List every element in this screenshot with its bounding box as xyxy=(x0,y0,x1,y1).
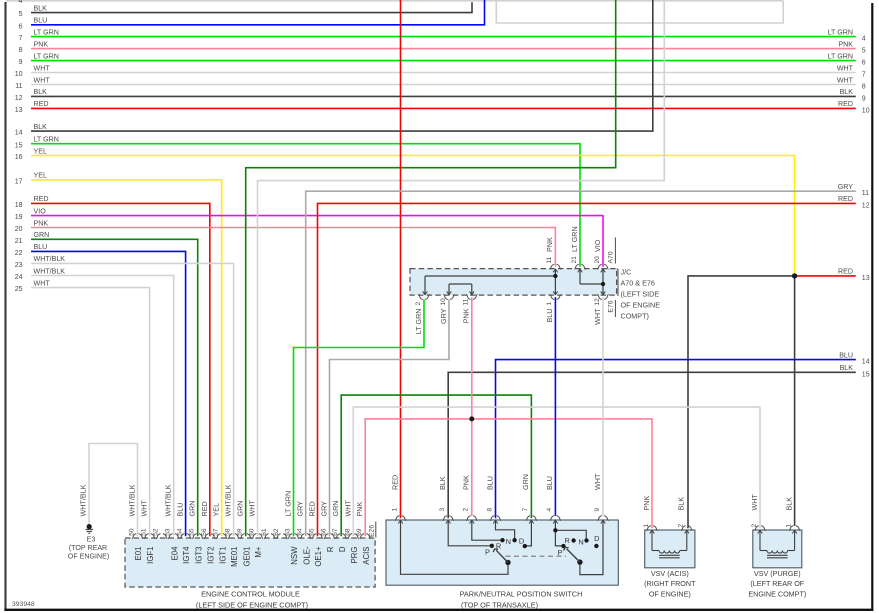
svg-text:RED: RED xyxy=(390,475,399,490)
svg-text:COMPT): COMPT) xyxy=(621,312,649,321)
svg-text:VSV (ACIS): VSV (ACIS) xyxy=(651,569,689,578)
svg-text:OF ENGINE: OF ENGINE xyxy=(621,301,661,310)
svg-text:WHT/BLK: WHT/BLK xyxy=(34,255,66,263)
svg-text:59: 59 xyxy=(237,528,244,536)
svg-text:22: 22 xyxy=(15,250,23,257)
svg-text:23: 23 xyxy=(15,262,23,269)
PNP internal: pin 4 to N and P contacts xyxy=(555,520,563,546)
svg-text:GRN: GRN xyxy=(521,474,530,490)
svg-text:IGT2: IGT2 xyxy=(206,547,215,564)
svg-text:60: 60 xyxy=(249,528,256,536)
svg-text:RED: RED xyxy=(838,100,853,108)
J/C internal wiring xyxy=(553,269,558,272)
wire GRN ECM pin 67 to PNP pin 7 xyxy=(341,395,531,536)
wire RED right 13 xyxy=(795,275,856,277)
svg-text:68: 68 xyxy=(344,528,351,536)
VSV PURGE solenoid coil xyxy=(759,531,761,551)
svg-text:P: P xyxy=(558,548,563,557)
wire 12 BLK across xyxy=(31,95,856,97)
svg-text:ENGINE COMPT): ENGINE COMPT) xyxy=(748,590,806,599)
ECM pin 57 IGT1 xyxy=(216,534,227,539)
svg-text:PNK: PNK xyxy=(642,496,651,511)
J/C A70 top pin 11 PNK xyxy=(550,264,561,269)
ECM pin 61 xyxy=(264,534,275,539)
svg-text:M+: M+ xyxy=(254,546,263,557)
svg-text:1: 1 xyxy=(785,524,792,528)
svg-text:LT GRN: LT GRN xyxy=(570,226,579,252)
svg-text:R: R xyxy=(326,546,335,552)
ECM pin 50 E01 xyxy=(132,534,143,539)
svg-text:WHT: WHT xyxy=(140,500,149,517)
svg-text:IGT4: IGT4 xyxy=(182,546,191,564)
svg-text:12: 12 xyxy=(862,202,870,209)
svg-text:1: 1 xyxy=(391,508,398,512)
svg-text:WHT: WHT xyxy=(343,500,352,517)
ECM pin 56 IGT2 xyxy=(204,534,215,539)
svg-text:PARK/NEUTRAL POSITION SWITCH: PARK/NEUTRAL POSITION SWITCH xyxy=(460,590,583,599)
svg-text:GRY: GRY xyxy=(439,308,448,324)
svg-text:5: 5 xyxy=(19,11,23,18)
svg-text:E04: E04 xyxy=(170,546,179,561)
svg-text:PNK: PNK xyxy=(34,40,49,48)
PNP contacts right xyxy=(571,538,575,542)
wire RED right 12 to ECM pin 65 xyxy=(318,203,856,536)
svg-text:PNK: PNK xyxy=(462,308,471,323)
wire 14 BLK from top xyxy=(31,0,653,131)
svg-text:15: 15 xyxy=(15,142,23,149)
svg-text:61: 61 xyxy=(261,528,268,536)
svg-text:18: 18 xyxy=(15,202,23,209)
wire PNK ECM pin 69 to VSV ACIS pin 1 xyxy=(365,419,652,536)
svg-text:GRN: GRN xyxy=(34,231,50,239)
wire 10 WHT across xyxy=(31,72,856,74)
wire 21 GRN to ECM pin 55 xyxy=(31,239,198,536)
svg-text:BLK: BLK xyxy=(34,4,48,12)
svg-text:21: 21 xyxy=(571,256,578,264)
svg-text:LT GRN: LT GRN xyxy=(414,309,423,335)
svg-text:N: N xyxy=(578,538,583,547)
svg-text:E76: E76 xyxy=(607,300,614,312)
VSV (ACIS) box xyxy=(645,530,695,568)
wire BLK right 15 to PNP pin 3 xyxy=(448,372,856,518)
VSV ACIS pin 2 BLK xyxy=(681,526,692,531)
PNP switch pin 9 WHT xyxy=(597,516,608,521)
ECM pin 63 NSW xyxy=(288,534,299,539)
svg-text:393948: 393948 xyxy=(12,601,35,608)
wire 25 WHT to ECM pin 51 xyxy=(31,288,150,537)
svg-text:9: 9 xyxy=(19,59,23,66)
svg-text:5: 5 xyxy=(862,48,866,55)
PNP switch pin 7 GRN xyxy=(526,516,537,521)
svg-text:WHT/BLK: WHT/BLK xyxy=(79,484,88,516)
svg-text:OE1+: OE1+ xyxy=(314,546,323,567)
svg-text:YEL: YEL xyxy=(212,503,221,517)
svg-text:20: 20 xyxy=(15,226,23,233)
svg-text:WHT/BLK: WHT/BLK xyxy=(34,267,66,275)
svg-text:NSW: NSW xyxy=(290,546,299,565)
svg-text:25: 25 xyxy=(15,286,23,293)
svg-text:VIO: VIO xyxy=(34,207,47,215)
svg-text:WHT: WHT xyxy=(34,64,51,72)
svg-text:GRY: GRY xyxy=(296,501,305,517)
svg-text:WHT: WHT xyxy=(248,500,257,517)
svg-text:6: 6 xyxy=(19,23,23,30)
svg-text:9: 9 xyxy=(594,508,601,512)
svg-text:11: 11 xyxy=(546,256,553,263)
J/C E76 bottom pin 1 BLU xyxy=(550,294,561,299)
svg-text:LT GRN: LT GRN xyxy=(34,28,59,36)
svg-text:54: 54 xyxy=(177,528,184,536)
ECM pin 64 OLE- xyxy=(300,534,311,539)
svg-text:E26: E26 xyxy=(368,525,375,537)
ECM pin 65 OE1+ xyxy=(312,534,323,539)
svg-text:(LEFT SIDE: (LEFT SIDE xyxy=(621,290,660,299)
svg-text:BLU: BLU xyxy=(485,476,494,490)
PNP internal: pin 3 to R contact xyxy=(448,520,492,546)
svg-text:20: 20 xyxy=(594,256,601,264)
svg-text:D: D xyxy=(594,534,599,543)
ECM pin 58 ME01 xyxy=(228,534,239,539)
svg-text:BLU: BLU xyxy=(34,17,48,25)
ECM pin 66 R xyxy=(324,534,335,539)
wire LT GRN J/C pin 2 to ECM pin 63 xyxy=(294,299,425,536)
PNP switch pin 4 BLU xyxy=(550,516,561,521)
wire BLU J/C pin 1 down to PNP pin 4 xyxy=(554,297,556,516)
label J/C xyxy=(617,269,619,296)
svg-text:63: 63 xyxy=(285,528,292,536)
svg-text:BLU: BLU xyxy=(176,503,185,517)
wire 18 RED to ECM pin 56 xyxy=(31,203,210,536)
svg-text:10: 10 xyxy=(862,107,870,114)
svg-text:R: R xyxy=(496,541,501,550)
svg-text:R: R xyxy=(565,536,570,545)
svg-text:9: 9 xyxy=(862,95,866,102)
svg-text:WHT/BLK: WHT/BLK xyxy=(164,484,173,516)
PNP contacts left xyxy=(490,544,494,548)
J/C E76 bottom pin 11 PNK xyxy=(466,294,477,299)
svg-text:8: 8 xyxy=(862,84,866,91)
PNP switch wiper left xyxy=(505,560,510,565)
J/C E76 bottom pin 10 GRY xyxy=(443,294,454,299)
svg-text:PNK: PNK xyxy=(34,219,49,227)
PNP internal: pin 1 to wiper xyxy=(401,520,509,574)
svg-text:19: 19 xyxy=(15,214,23,221)
svg-text:24: 24 xyxy=(15,274,23,281)
wire GRY J/C pin 10 to ECM pin 66 xyxy=(330,299,450,536)
svg-text:21: 21 xyxy=(15,238,23,245)
PNP mechanical link dashed xyxy=(506,555,567,557)
svg-text:IGT3: IGT3 xyxy=(194,547,203,564)
svg-text:WHT: WHT xyxy=(750,494,759,511)
PNP internal: pin 8 to D contact xyxy=(496,520,515,540)
svg-text:A70: A70 xyxy=(607,251,614,263)
wire WHT/BLK E3 ground to ECM pin 50 xyxy=(89,444,138,537)
svg-text:OF ENGINE): OF ENGINE) xyxy=(68,553,109,561)
svg-text:BLU: BLU xyxy=(34,243,48,251)
svg-text:ENGINE CONTROL MODULE: ENGINE CONTROL MODULE xyxy=(201,590,300,599)
PNP internal: pin 7 to D contact xyxy=(525,520,532,546)
svg-text:BLK: BLK xyxy=(34,88,48,96)
wire row4 WHT top xyxy=(6,0,783,2)
svg-text:A70 & E76: A70 & E76 xyxy=(621,279,655,288)
svg-text:14: 14 xyxy=(15,130,23,137)
svg-text:12: 12 xyxy=(594,298,601,306)
svg-text:OLE-: OLE- xyxy=(302,546,311,565)
svg-text:YEL: YEL xyxy=(34,147,47,155)
svg-text:BLK: BLK xyxy=(677,497,686,511)
svg-text:GRN: GRN xyxy=(331,501,340,517)
svg-text:BLK: BLK xyxy=(784,497,793,511)
park/neutral position switch box xyxy=(386,520,618,585)
svg-text:BLK: BLK xyxy=(840,364,854,372)
wire GRY right 11 to ECM pin 64 xyxy=(306,191,856,536)
svg-text:10: 10 xyxy=(440,298,447,306)
svg-text:OF ENGINE): OF ENGINE) xyxy=(649,590,691,599)
svg-text:4: 4 xyxy=(19,0,23,5)
J/C E76 bottom pin 12 WHT xyxy=(597,294,608,299)
svg-text:56: 56 xyxy=(201,528,208,536)
svg-text:57: 57 xyxy=(213,528,220,536)
svg-text:(TOP OF TRANSAXLE): (TOP OF TRANSAXLE) xyxy=(461,601,538,610)
svg-text:WHT/BLK: WHT/BLK xyxy=(128,484,137,516)
J/C E76 bottom pin 2 LT GRN xyxy=(418,294,429,299)
wire 24 WHT/BLK to ECM pin 53 xyxy=(31,276,174,537)
page border right xyxy=(871,3,873,610)
VSV PURGE pin 1 BLK xyxy=(789,526,800,531)
VSV PURGE pin 2 WHT xyxy=(754,526,765,531)
svg-text:RED: RED xyxy=(838,195,853,203)
page border bottom xyxy=(4,609,873,611)
svg-text:RED: RED xyxy=(308,501,317,516)
svg-text:53: 53 xyxy=(165,528,172,536)
svg-text:2: 2 xyxy=(678,524,685,528)
wire 23 WHT/BLK to ECM pin 58 xyxy=(31,263,234,536)
svg-text:D: D xyxy=(338,546,347,552)
wire 15 LT GRN to J/C pin 21 xyxy=(31,144,580,267)
svg-text:PNK: PNK xyxy=(545,237,554,252)
PNP switch pin 1 RED xyxy=(395,516,406,521)
svg-text:65: 65 xyxy=(309,528,316,536)
svg-text:14: 14 xyxy=(862,359,870,366)
wire 22 BLU to ECM pin 54 xyxy=(31,251,186,536)
svg-text:BLU: BLU xyxy=(545,476,554,490)
svg-text:RED: RED xyxy=(200,501,209,516)
wire WHT top U loop xyxy=(496,0,783,23)
svg-text:7: 7 xyxy=(522,508,529,512)
svg-text:WHT: WHT xyxy=(34,76,51,84)
node junction YEL/RED/BLK xyxy=(792,273,797,278)
ECM pin 59 GE01 xyxy=(240,534,251,539)
svg-text:4: 4 xyxy=(862,36,866,43)
wire 6 BLU xyxy=(31,0,485,25)
svg-text:50: 50 xyxy=(129,528,136,536)
svg-text:PNK: PNK xyxy=(838,40,853,48)
junction connector J/C A70 & E76 box xyxy=(410,269,617,296)
ECM pin 67 D xyxy=(336,534,347,539)
svg-text:BLK: BLK xyxy=(34,123,48,131)
wire BLK junction to VSV PURGE pin 1 xyxy=(794,276,796,526)
svg-text:YEL: YEL xyxy=(34,172,47,180)
svg-text:2: 2 xyxy=(751,524,758,528)
svg-text:2: 2 xyxy=(415,302,422,306)
svg-text:13: 13 xyxy=(15,107,23,114)
svg-text:GRY: GRY xyxy=(838,183,854,191)
svg-text:N: N xyxy=(506,537,511,546)
ECM connector box E26 xyxy=(125,538,375,587)
svg-text:58: 58 xyxy=(225,528,232,536)
VSV ACIS pin 1 PNK xyxy=(646,526,657,531)
svg-text:PNK: PNK xyxy=(462,475,471,490)
svg-text:(LEFT REAR OF: (LEFT REAR OF xyxy=(750,579,804,588)
svg-text:LT GRN: LT GRN xyxy=(284,491,293,517)
svg-text:VSV (PURGE): VSV (PURGE) xyxy=(754,569,801,578)
svg-text:E01: E01 xyxy=(134,547,143,561)
svg-text:11: 11 xyxy=(15,83,22,90)
svg-text:GRN: GRN xyxy=(236,501,245,517)
svg-text:10: 10 xyxy=(15,71,23,78)
svg-text:RED: RED xyxy=(34,195,49,203)
wire 8 PNK across xyxy=(31,48,856,50)
ECM pin 53 E04 xyxy=(168,534,179,539)
wire 9 LT GRN across xyxy=(31,60,856,62)
wire 17 YEL to ECM pin 57 xyxy=(31,180,222,536)
svg-text:64: 64 xyxy=(297,528,304,536)
svg-text:1: 1 xyxy=(643,524,650,528)
svg-text:(RIGHT FRONT: (RIGHT FRONT xyxy=(644,579,696,588)
ECM pin 55 IGT3 xyxy=(192,534,203,539)
VSV (PURGE) box xyxy=(753,530,802,568)
svg-text:7: 7 xyxy=(19,35,23,42)
svg-text:PRG: PRG xyxy=(350,547,359,564)
svg-text:WHT/BLK: WHT/BLK xyxy=(224,484,233,516)
svg-text:(TOP REAR: (TOP REAR xyxy=(69,544,107,552)
svg-text:WHT: WHT xyxy=(837,64,854,72)
wire 11 WHT across xyxy=(31,84,856,86)
wire 13 RED across xyxy=(31,107,856,109)
svg-text:3: 3 xyxy=(439,508,446,512)
ECM pin 69 ACIS xyxy=(360,534,371,539)
svg-text:13: 13 xyxy=(862,275,870,282)
svg-text:RED: RED xyxy=(34,100,49,108)
wire BLK junction to VSV ACIS pin 2 xyxy=(688,276,795,528)
svg-text:IGF1: IGF1 xyxy=(146,547,155,564)
wire WHT from top to ECM pin 60 xyxy=(258,0,665,536)
svg-text:(LEFT SIDE OF ENGINE COMPT): (LEFT SIDE OF ENGINE COMPT) xyxy=(196,601,308,610)
svg-text:55: 55 xyxy=(189,528,196,536)
svg-text:VIO: VIO xyxy=(593,239,602,252)
svg-text:8: 8 xyxy=(486,508,493,512)
ECM pin 52 xyxy=(156,534,167,539)
svg-text:12: 12 xyxy=(15,95,23,102)
svg-text:LT GRN: LT GRN xyxy=(34,52,59,60)
J/C A70 top pin 20 VIO xyxy=(597,264,608,269)
ECM pin 62 xyxy=(276,534,287,539)
svg-text:LT GRN: LT GRN xyxy=(828,52,853,60)
svg-text:GE01: GE01 xyxy=(242,547,251,567)
VSV ACIS solenoid coil xyxy=(651,531,653,551)
ECM pin 60 M+ xyxy=(252,534,263,539)
wire 19 VIO to J/C pin 20 xyxy=(31,216,603,267)
svg-text:11: 11 xyxy=(463,298,470,305)
svg-text:62: 62 xyxy=(273,528,280,536)
svg-text:PNK: PNK xyxy=(355,502,364,517)
wire WHT ECM pin 68 to VSV PURGE pin 2 xyxy=(353,407,760,536)
svg-text:69: 69 xyxy=(356,528,363,536)
svg-text:66: 66 xyxy=(321,528,328,536)
J/C A70 top pin 21 LT GRN xyxy=(574,264,585,269)
svg-text:17: 17 xyxy=(15,178,23,185)
PNP internal: pin 2 to N contact xyxy=(472,520,503,540)
wire 7 LT GRN across xyxy=(31,36,856,38)
wire WHT J/C pin 12 down to PNP pin 9 xyxy=(602,297,604,516)
ECM pin 54 IGT4 xyxy=(180,534,191,539)
wire PNK J/C pin 11 down to PNP pin 2 xyxy=(471,297,473,516)
svg-text:BLU: BLU xyxy=(839,351,853,359)
wire 5 BLK xyxy=(31,2,472,12)
PNP switch pin 2 PNK xyxy=(466,516,477,521)
PNP switch wiper right xyxy=(577,559,582,564)
ECM pin 51 IGF1 xyxy=(144,534,155,539)
wire RED from top to PNP switch pin 1 xyxy=(400,0,402,518)
svg-text:4: 4 xyxy=(546,508,553,512)
svg-text:ACIS: ACIS xyxy=(362,547,371,565)
PNP internal: pin 9 to wiper right xyxy=(580,520,603,574)
svg-text:11: 11 xyxy=(862,190,869,197)
PNP switch pin 3 BLK xyxy=(443,516,454,521)
svg-text:51: 51 xyxy=(141,528,148,536)
svg-text:LT GRN: LT GRN xyxy=(828,28,853,36)
svg-text:BLU: BLU xyxy=(545,309,554,323)
ground E3 xyxy=(87,524,92,529)
ECM pin 68 PRG xyxy=(348,534,359,539)
svg-text:WHT: WHT xyxy=(593,473,602,490)
svg-text:RED: RED xyxy=(838,268,853,276)
svg-text:P: P xyxy=(485,547,490,556)
svg-text:ME01: ME01 xyxy=(230,547,239,567)
wire GRN from top to ECM pin 59 xyxy=(246,0,616,536)
svg-text:E3: E3 xyxy=(87,535,96,543)
svg-text:WHT: WHT xyxy=(593,308,602,325)
svg-text:8: 8 xyxy=(19,47,23,54)
svg-text:LT GRN: LT GRN xyxy=(34,136,59,144)
svg-text:2: 2 xyxy=(463,508,470,512)
svg-text:BLK: BLK xyxy=(840,88,854,96)
PNP switch pin 8 BLU xyxy=(490,516,501,521)
svg-text:1: 1 xyxy=(546,302,553,306)
svg-text:WHT: WHT xyxy=(837,76,854,84)
page border left xyxy=(4,2,6,610)
svg-text:15: 15 xyxy=(862,371,870,378)
svg-text:WHT: WHT xyxy=(34,279,51,287)
svg-text:IGT1: IGT1 xyxy=(218,547,227,564)
svg-text:D: D xyxy=(519,537,524,546)
svg-text:67: 67 xyxy=(332,528,339,536)
svg-text:16: 16 xyxy=(15,154,23,161)
wire 20 PNK to J/C pin 11 xyxy=(31,228,555,267)
wire 16 YEL to junction xyxy=(31,156,795,276)
wire BLU right 14 to PNP pin 8 xyxy=(496,360,856,519)
svg-text:6: 6 xyxy=(862,60,866,67)
svg-text:52: 52 xyxy=(153,528,160,536)
svg-text:J/C: J/C xyxy=(621,268,632,277)
svg-text:GRY: GRY xyxy=(320,501,329,517)
node junction PNK net xyxy=(469,416,474,421)
svg-text:7: 7 xyxy=(862,72,866,79)
svg-text:GRN: GRN xyxy=(188,501,197,517)
svg-text:BLK: BLK xyxy=(438,476,447,490)
